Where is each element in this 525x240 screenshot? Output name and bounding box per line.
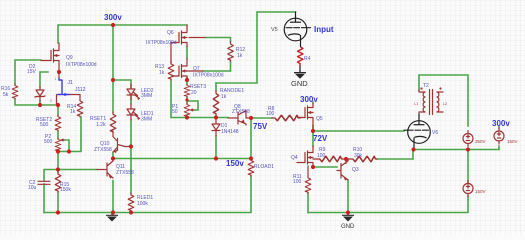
svg-text:30k: 30k — [354, 153, 363, 159]
svg-text:L2: L2 — [443, 102, 447, 106]
svg-text:1k: 1k — [70, 109, 76, 115]
svg-text:75V: 75V — [253, 122, 268, 131]
svg-text:100: 100 — [293, 179, 302, 185]
svg-text:V6: V6 — [432, 130, 438, 136]
svg-text:Input: Input — [314, 25, 334, 34]
svg-text:ZTX558: ZTX558 — [116, 170, 134, 176]
svg-text:5k: 5k — [3, 92, 9, 98]
svg-text:Q5: Q5 — [316, 116, 323, 122]
svg-text:Q7: Q7 — [193, 66, 200, 72]
svg-text:350V: 350V — [475, 139, 486, 144]
svg-text:1N4148: 1N4148 — [221, 129, 239, 135]
svg-text:1k: 1k — [221, 94, 227, 100]
svg-text:IXTP08n100d: IXTP08n100d — [66, 62, 97, 68]
svg-text:15V: 15V — [27, 69, 37, 75]
svg-text:72V: 72V — [313, 134, 328, 143]
svg-text:1.2k: 1.2k — [96, 122, 106, 128]
svg-text:3MM: 3MM — [141, 117, 152, 123]
svg-text:IXTP08n100d: IXTP08n100d — [193, 73, 224, 79]
svg-text:Q6: Q6 — [167, 30, 174, 36]
svg-text:ZTX558: ZTX558 — [232, 109, 250, 115]
svg-text:100k: 100k — [137, 201, 148, 207]
svg-text:T2: T2 — [423, 83, 429, 89]
svg-text:J112: J112 — [75, 87, 86, 93]
svg-text:R4: R4 — [304, 56, 311, 62]
svg-text:J1: J1 — [68, 80, 74, 86]
svg-text:500: 500 — [40, 122, 49, 128]
svg-text:IXTP08n100d: IXTP08n100d — [146, 40, 177, 46]
svg-text:300v: 300v — [300, 95, 318, 104]
svg-text:Q4: Q4 — [291, 155, 298, 161]
svg-text:Q3: Q3 — [352, 167, 359, 173]
svg-text:L1: L1 — [414, 102, 418, 106]
svg-text:100: 100 — [266, 111, 275, 117]
svg-text:500: 500 — [44, 139, 53, 145]
svg-text:1k: 1k — [159, 70, 165, 76]
svg-text:150V: 150V — [475, 189, 486, 194]
svg-text:150v: 150v — [226, 159, 244, 168]
svg-text:GND: GND — [291, 79, 308, 88]
svg-text:100: 100 — [317, 153, 326, 159]
svg-text:10u: 10u — [28, 185, 37, 191]
svg-text:50: 50 — [172, 109, 178, 115]
svg-text:RLOAD1: RLOAD1 — [254, 164, 274, 170]
svg-text:GND: GND — [341, 224, 355, 230]
svg-text:150k: 150k — [60, 187, 71, 193]
svg-text:300v: 300v — [104, 13, 122, 22]
svg-text:150V: 150V — [507, 139, 518, 144]
svg-text:Q9: Q9 — [66, 55, 73, 61]
svg-text:300v: 300v — [492, 119, 510, 128]
svg-text:1k: 1k — [237, 53, 243, 59]
svg-text:20: 20 — [191, 90, 197, 96]
svg-text:ZTX558: ZTX558 — [94, 147, 112, 153]
svg-text:3MM: 3MM — [141, 93, 152, 99]
svg-text:V5: V5 — [271, 27, 278, 33]
